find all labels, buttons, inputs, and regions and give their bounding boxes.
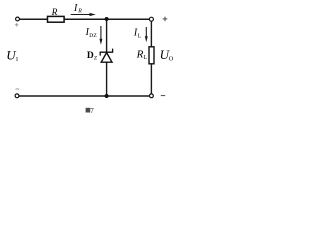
wire zener branch upper <box>106 19 108 52</box>
wire right branch lower: RL to bottom terminal <box>150 64 152 94</box>
svg-text:L: L <box>143 55 147 61</box>
zener diode DZ <box>100 49 112 63</box>
polarity - at input bottom-left <box>16 88 20 90</box>
terminal output bottom-right <box>150 94 154 98</box>
polarity - at output bottom-right <box>161 95 165 97</box>
terminal output top-right <box>149 17 153 21</box>
polarity + at output top-right <box>163 17 168 22</box>
node junction top <box>105 17 109 21</box>
svg-text:R: R <box>51 8 58 18</box>
current arrow I_L <box>145 27 148 42</box>
svg-text:7: 7 <box>90 107 94 115</box>
polarity + at input top-left <box>15 23 18 26</box>
resistor RL (box) <box>149 47 154 64</box>
wire zener branch lower <box>106 62 108 96</box>
svg-text:O: O <box>169 55 174 62</box>
caption figure 7 (blurred CJK char + 7) <box>86 107 95 115</box>
current arrow I_R <box>71 13 96 16</box>
wire top middle: resistor R to right terminal <box>64 18 150 20</box>
wire top left: input terminal to resistor R <box>19 18 48 20</box>
svg-text:Z: Z <box>94 56 98 62</box>
node junction bottom <box>105 94 109 98</box>
svg-text:DZ: DZ <box>89 33 97 39</box>
wire bottom: left terminal to right terminal <box>19 95 150 97</box>
wire right branch upper: output terminal to RL <box>150 21 152 47</box>
svg-text:L: L <box>138 33 142 39</box>
terminal input bottom-left <box>15 94 19 98</box>
svg-text:R: R <box>77 9 82 15</box>
svg-text:R: R <box>136 48 144 60</box>
svg-text:I: I <box>73 3 78 14</box>
resistor R (box) <box>48 16 65 22</box>
terminal input top-left <box>16 17 20 21</box>
svg-text:I: I <box>16 57 18 63</box>
current arrow I_DZ <box>99 26 102 45</box>
svg-text:D: D <box>87 51 94 61</box>
